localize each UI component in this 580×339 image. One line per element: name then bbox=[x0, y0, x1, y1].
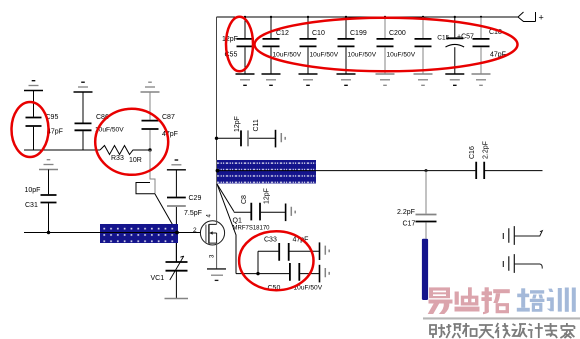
capacitor C57 bbox=[454, 17, 456, 38]
resistor R33 bbox=[100, 146, 150, 155]
wire vertical over TL1 edge bbox=[216, 160, 218, 184]
watermark tagline gray bbox=[430, 323, 574, 338]
capacitor C55 bbox=[244, 17, 246, 38]
capacitor C86 bbox=[82, 92, 84, 150]
microstrip TL2 selected (input) bbox=[100, 224, 178, 243]
node output tee bbox=[425, 169, 428, 172]
gray end bar below VC1 bbox=[165, 298, 189, 300]
capacitor C50 (series) bbox=[236, 273, 320, 275]
watermark divider line bbox=[423, 317, 580, 319]
capacitor C15 bbox=[422, 17, 424, 38]
capacitor C12 bbox=[270, 17, 272, 38]
ground above C86 bbox=[81, 81, 85, 83]
wire drain vertical bbox=[216, 184, 218, 224]
capacitor C11 (series) bbox=[217, 137, 276, 139]
wire gate bus over TL2 bbox=[99, 232, 179, 234]
wire output line bbox=[217, 170, 475, 172]
node C11 junction bbox=[215, 137, 218, 140]
variable capacitor VC1 bbox=[175, 243, 177, 298]
ground below C55 bbox=[236, 73, 255, 75]
highlight ellipse C33 C50 bbox=[239, 231, 313, 290]
wire C87 leg jog (gray) bbox=[150, 150, 155, 194]
wire long diagonal to C33 branch bbox=[217, 184, 236, 274]
ground below Q1 bbox=[207, 268, 226, 270]
wire left vertical from bus to TL1 bbox=[216, 17, 218, 161]
connector capacitor upper right bbox=[502, 233, 504, 239]
node drain output junction bbox=[216, 169, 220, 173]
capacitor C18 bbox=[480, 17, 482, 38]
ground below C200 bbox=[376, 73, 395, 75]
highlight ellipse C95 bbox=[12, 102, 49, 157]
highlight ellipse C55 bbox=[226, 17, 253, 72]
off-page connector plus bbox=[518, 12, 536, 22]
wire gate bus bbox=[24, 232, 201, 234]
highlight ellipse R33 group bbox=[95, 109, 168, 175]
capacitor C95 bbox=[33, 91, 35, 151]
ground above C29 bbox=[175, 159, 179, 161]
ground below C15 bbox=[414, 73, 433, 75]
capacitor C200 bbox=[384, 17, 386, 38]
ground above C87 bbox=[148, 81, 152, 83]
ground above C95 bbox=[32, 80, 36, 82]
capacitor C199 bbox=[345, 17, 347, 38]
wire C33 C50 tie bbox=[257, 251, 259, 273]
microstrip TL1 selected (drain) bbox=[217, 160, 316, 184]
capacitor C31 bbox=[48, 170, 50, 233]
ground below C57 bbox=[445, 73, 464, 75]
capacitor C29 bbox=[175, 170, 177, 262]
wire source to ground bbox=[216, 243, 218, 269]
ground below C12 bbox=[262, 73, 281, 75]
capacitor C33 (series) bbox=[258, 250, 320, 252]
watermark logo pei xun (blue) bbox=[517, 288, 576, 312]
node R33 C87 junction bbox=[148, 148, 151, 151]
capacitor C10 bbox=[307, 17, 309, 38]
wire top supply bus bbox=[217, 16, 519, 18]
ground below C199 bbox=[337, 73, 356, 75]
wire diagonal to C8 bbox=[217, 184, 234, 212]
capacitor C17 bbox=[425, 171, 427, 214]
ground below C10 bbox=[299, 73, 318, 75]
capacitor C8 (series) bbox=[234, 211, 286, 213]
capacitor C87 bbox=[149, 92, 151, 150]
node C31 junction bbox=[47, 231, 50, 234]
wire diagonal to gate node bbox=[155, 194, 177, 233]
highlight ellipse top capacitor bank bbox=[255, 18, 518, 72]
capacitor C16 (series) bbox=[476, 162, 484, 179]
node gate junction bbox=[175, 231, 179, 235]
wire input bus bbox=[24, 149, 100, 151]
wire black loop segment bbox=[136, 183, 155, 194]
ground below C18 bbox=[472, 73, 491, 75]
transistor Q1 MRF7S18170 bbox=[200, 221, 224, 245]
connector capacitor lower right bbox=[502, 261, 504, 267]
watermark logo yi di tuo (pink) bbox=[428, 287, 510, 314]
microstrip stub selected (navy bar) bbox=[422, 239, 428, 300]
ground above C31 bbox=[47, 159, 51, 161]
